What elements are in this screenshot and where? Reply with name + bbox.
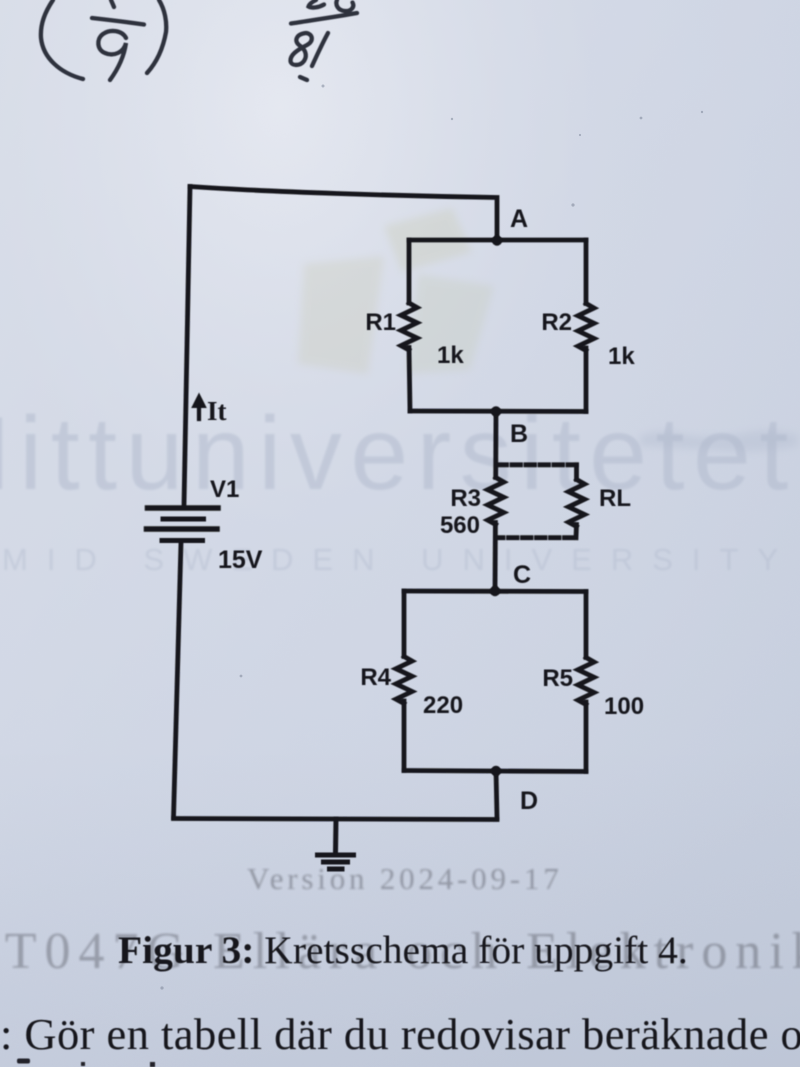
wire node D to bottom wire: [496, 770, 497, 818]
handwriting fraction bar 26/81: [291, 13, 357, 24]
resistor R5: [578, 658, 594, 705]
svg-text:Version 2024-09-17: Version 2024-09-17: [247, 861, 563, 896]
ground bar 2: [324, 860, 348, 865]
wire box2 bottom edge: [404, 771, 586, 772]
wire box2 right edge lower: [584, 702, 589, 772]
handwriting stray mark: [300, 77, 307, 80]
svg-text:V1: V1: [210, 476, 239, 503]
wire box2 right edge upper: [584, 592, 589, 658]
svg-text:It: It: [207, 396, 227, 426]
node A junction dot: [492, 235, 502, 245]
next line letter tops at bottom edge: [17, 1059, 155, 1067]
ground bar 3: [330, 867, 343, 872]
wire box1 left edge lower: [409, 348, 410, 412]
svg-text:C: C: [513, 561, 531, 589]
node C junction dot: [490, 586, 500, 596]
wire node B to R3: [493, 412, 498, 478]
svg-text:B: B: [510, 420, 528, 448]
handwriting digit 9: [98, 31, 126, 80]
wire left vertical upper (battery top lead): [184, 187, 190, 506]
handwriting fraction bar 1/9: [92, 18, 144, 25]
svg-text:: Gör en tabell där du redovis: : Gör en tabell där du redovisar beräkna…: [0, 1009, 800, 1059]
svg-text:R2: R2: [541, 309, 572, 336]
battery V1 plate short bottom: [162, 538, 203, 543]
wire box1 top edge: [409, 238, 586, 243]
current arrow It shaft: [197, 406, 201, 419]
svg-text:15V: 15V: [218, 546, 263, 574]
handwriting 26 bottom tips: [309, 0, 325, 8]
resistor R4: [396, 657, 412, 704]
resistor RL: [569, 480, 585, 527]
wire box1 right edge lower: [584, 348, 589, 412]
wire left vertical lower (battery bottom lead): [174, 542, 182, 818]
svg-text:1k: 1k: [437, 342, 464, 369]
handwriting right parenthesis: [147, 0, 166, 73]
wire box1 left edge upper: [407, 240, 412, 303]
wire box1 bottom edge: [410, 409, 586, 414]
svg-text:D: D: [520, 787, 538, 815]
battery V1 plate long: [147, 526, 218, 532]
wire box2 left edge upper: [402, 591, 407, 657]
svg-text:R5: R5: [542, 665, 573, 692]
svg-text:MID SWEDEN UNIVERSITY: MID SWEDEN UNIVERSITY: [2, 542, 797, 577]
handwriting digit 1: [312, 33, 328, 66]
ground stub wire: [333, 819, 339, 852]
svg-text:1k: 1k: [608, 343, 635, 370]
svg-text:R3: R3: [450, 485, 481, 512]
wire top from battery to node A corner: [190, 187, 497, 239]
handwriting left parenthesis: [41, 0, 83, 79]
wire box1 right edge upper: [584, 240, 589, 304]
wire RL bottom stub: [574, 525, 579, 538]
ground bar 1: [318, 853, 354, 858]
handwriting fraction 1/9 numerator tip: [111, 0, 114, 7]
wire R3 to node C: [493, 523, 498, 592]
handwriting digit 8: [290, 33, 311, 65]
svg-text:R1: R1: [365, 309, 396, 336]
svg-text:R4: R4: [360, 664, 391, 691]
wire RL top stub: [574, 465, 579, 480]
dust specks: [160, 85, 703, 990]
handwritten annotations: [41, 0, 357, 80]
svg-text:A: A: [510, 205, 528, 233]
svg-text:Figur 3: Kretsschema för uppgi: Figur 3: Kretsschema för uppgift 4.: [118, 928, 688, 972]
dashed wire node B to RL top: [498, 462, 577, 467]
resistor R2: [578, 304, 594, 351]
node B junction dot: [491, 406, 501, 416]
node D junction dot: [491, 766, 501, 776]
bleed-through smudges: [640, 430, 798, 451]
battery V1 plate long top: [148, 505, 219, 511]
dashed wire RL bottom to node C: [497, 535, 573, 540]
wire box2 left edge lower: [402, 701, 407, 771]
svg-text:100: 100: [604, 693, 644, 720]
resistor R1: [401, 303, 417, 350]
svg-text:Mittuniversitetet: Mittuniversitetet: [0, 396, 797, 512]
wire bottom horizontal: [174, 819, 498, 820]
watermark logo chevrons: [298, 208, 494, 374]
svg-text:RL: RL: [599, 485, 631, 512]
battery V1 plate short: [163, 517, 204, 522]
svg-text:220: 220: [423, 692, 463, 719]
current arrow It head: [191, 393, 207, 409]
resistor R3: [488, 478, 504, 525]
wire box2 top edge: [404, 589, 586, 594]
svg-text:560: 560: [440, 512, 480, 539]
